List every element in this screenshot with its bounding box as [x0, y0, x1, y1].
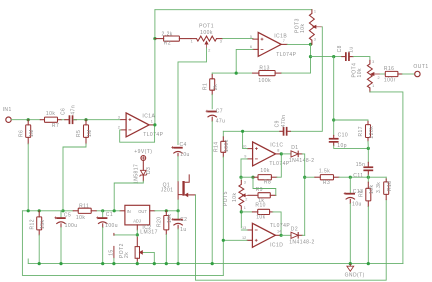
wire: POT2 bottom to ground rail [136, 262, 138, 264]
node: POT2 ground [136, 262, 139, 265]
svg-text:15n: 15n [356, 162, 366, 168]
svg-text:R9: R9 [256, 187, 263, 193]
wire: C2 bottom to ground rail [177, 229, 179, 264]
diode D1 1N4148-2 [281, 153, 290, 155]
svg-text:IC1C: IC1C [270, 143, 283, 149]
wire: C1 bottom to ground rail [102, 227, 104, 263]
svg-text:10k: 10k [232, 193, 238, 202]
node: C5 ground [59, 262, 62, 265]
svg-text:R2: R2 [164, 41, 171, 47]
svg-text:1M: 1M [29, 129, 35, 137]
op-amp IC1C TL074P [253, 142, 276, 166]
wire: R3 to filter nodes [339, 176, 386, 178]
svg-text:R6: R6 [18, 130, 24, 137]
wire: D3 bottom left and down to IN rail [114, 181, 143, 211]
node: R20 ground [165, 262, 168, 265]
resistor R10 10k [241, 211, 252, 213]
node: C1 top [101, 209, 104, 212]
capacitor C8 1u [345, 52, 347, 61]
op-amp IC1D TL074P (inverting orientation) [252, 223, 275, 247]
svg-text:1.5k: 1.5k [319, 169, 330, 175]
svg-text:1: 1 [372, 84, 374, 88]
wire: Q1 left pin down to V+ rail end [177, 200, 179, 211]
svg-text:3: 3 [118, 115, 120, 119]
svg-text:TL074P: TL074P [276, 52, 296, 58]
svg-text:2k: 2k [213, 84, 219, 90]
wire: C13 bottom to ground rail [349, 203, 351, 263]
capacitor C2 1u (polarized) [177, 211, 179, 219]
resistor R7 10k [45, 117, 58, 122]
node: C11 bottom / R4 top [367, 176, 370, 179]
wire: R8 right up to IC1C output node [277, 154, 282, 177]
resistor R9 1k [248, 194, 258, 196]
capacitor C9 470n [283, 127, 285, 136]
op-amp IC1B TL074P [258, 32, 281, 56]
transistor Q1 J201 (JFET) [182, 181, 184, 196]
svg-text:15: 15 [108, 249, 114, 255]
capacitor C5 100u (polarized) [61, 211, 63, 217]
node: C13 top [349, 176, 352, 179]
svg-text:R1: R1 [202, 83, 208, 90]
capacitor C1 100u (polarized) [102, 211, 104, 217]
resistor R3 1.5k [315, 176, 320, 178]
svg-text:C11: C11 [353, 173, 363, 179]
svg-text:R14: R14 [213, 141, 219, 152]
svg-text:LM317: LM317 [140, 230, 158, 236]
capacitor C6 47n [69, 115, 71, 124]
potentiometer POT1 100k [197, 36, 217, 41]
svg-text:10k: 10k [256, 215, 265, 221]
node: C7 ground [211, 262, 214, 265]
svg-text:13: 13 [242, 226, 246, 230]
resistor R18 3.3k [385, 177, 387, 179]
svg-text:3.3k: 3.3k [376, 182, 382, 193]
wire: C9 row from R14 corner to C9 [223, 130, 280, 132]
wire: top node right to R17 [334, 120, 368, 121]
potentiometer POT4 10k [369, 60, 371, 64]
wire: D2 cathode to rectifier bus [302, 234, 305, 236]
wire: POT5 bottom down to IC1D minus corner [240, 210, 242, 228]
svg-text:D1: D1 [291, 145, 298, 151]
wire: C6 to IC1A plus input [73, 119, 120, 121]
svg-text:C10: C10 [338, 133, 349, 139]
svg-text:R17: R17 [358, 126, 364, 137]
svg-text:TL074P: TL074P [270, 223, 290, 229]
potentiometer POT3 10k [311, 10, 313, 14]
diode D3 1N5817 (zener to IN node) [142, 161, 144, 171]
wire: top rail from R2/IC1A node to POT3 top [155, 9, 312, 11]
svg-text:POT1: POT1 [199, 23, 214, 29]
terminal OUT1 [415, 71, 420, 76]
wire: IC1D plus to R14 vertical [223, 239, 247, 241]
supply +9V(T) [141, 156, 146, 161]
wire: R10 right down to IC1D output node [273, 212, 281, 235]
wire: summing rail to R8 [241, 176, 253, 178]
wire: IC1A feedback loop minus to output [120, 125, 155, 142]
svg-text:IC1A: IC1A [142, 113, 155, 119]
svg-text:IN1: IN1 [3, 107, 12, 113]
svg-text:R13: R13 [259, 66, 270, 72]
node: C8 row tap on output vertical [309, 55, 312, 58]
wire: POT4 wiper to R16 [380, 73, 385, 75]
wire: C5 bottom to ground rail [60, 227, 62, 263]
capacitor C7 47u (polarized) [208, 111, 217, 113]
resistor R16 100r [385, 71, 398, 76]
node: C2 ground [177, 262, 180, 265]
wire: C7 bottom down to ground rail [211, 121, 213, 263]
terminal IN1 [6, 117, 11, 122]
svg-text:100k: 100k [200, 30, 213, 36]
svg-text:R12: R12 [29, 219, 35, 230]
svg-text:D2: D2 [291, 227, 298, 233]
resistor R17 220k [367, 121, 369, 124]
svg-text:R5: R5 [76, 130, 82, 137]
svg-text:C4: C4 [180, 142, 187, 148]
svg-text:10k: 10k [76, 215, 85, 221]
svg-text:IC1D: IC1D [270, 242, 283, 248]
svg-text:R20: R20 [156, 216, 162, 227]
resistor R14 100k [222, 131, 224, 137]
node: ADJ cap ground [112, 262, 115, 265]
trimmer POT2 2k [136, 237, 138, 246]
wire: ground rail [28, 259, 403, 264]
wire: Q1 gate line down and right along bottom to R18 [196, 195, 387, 280]
svg-text:10k: 10k [46, 111, 55, 117]
svg-text:2: 2 [118, 126, 120, 130]
svg-text:C2: C2 [180, 217, 187, 223]
svg-text:IN: IN [127, 209, 131, 214]
wire: POT2 wiper right and down to ground rail [143, 252, 154, 263]
svg-text:220k: 220k [369, 126, 375, 139]
svg-text:1: 1 [191, 39, 193, 43]
node: ADJ junction [136, 233, 139, 236]
svg-text:GND(T): GND(T) [345, 273, 365, 279]
svg-text:C1: C1 [106, 212, 113, 218]
wire: ADJ left to bypass cap [114, 234, 137, 236]
node: R4 ground [367, 262, 370, 265]
diode D2 1N4148-2 [281, 234, 291, 236]
resistor R5 1M [85, 120, 87, 125]
wire: POT1 wiper down, left, down to C4 top [178, 48, 207, 145]
node: R2 left / IC1A output vertical junction [153, 37, 156, 40]
svg-text:8: 8 [277, 148, 279, 152]
node: IC1B minus feedback junction [235, 72, 238, 75]
svg-text:10k: 10k [357, 68, 363, 77]
svg-text:POT5: POT5 [223, 191, 229, 206]
wire: POT3 wiper down to C9 right node [290, 27, 322, 132]
node: IC1C minus / R8 / POT5 junction [239, 176, 242, 179]
svg-text:1: 1 [314, 10, 316, 14]
svg-text:3: 3 [220, 39, 222, 43]
node: C5 top / R5 drop [61, 209, 64, 212]
potentiometer POT5 10k [240, 177, 242, 180]
svg-text:1: 1 [151, 119, 153, 123]
wire: V+ rail from LM317 OUT to C4/C2/Q1 node [155, 210, 178, 212]
node: IC1C plus tap on C9 row [241, 130, 244, 133]
svg-text:1M: 1M [87, 129, 93, 137]
wire: R6 bottom down to bias rail [27, 144, 29, 211]
resistor R13 100k [253, 72, 259, 74]
svg-text:R11: R11 [79, 203, 89, 209]
wire: R2-node down to IC1A output [154, 39, 156, 125]
svg-text:10u: 10u [180, 152, 190, 158]
svg-text:2: 2 [208, 49, 210, 53]
node: C13 ground [349, 262, 352, 265]
svg-text:100k: 100k [224, 139, 230, 152]
capacitor C15 15 (ADJ bypass, tiny) [113, 233, 115, 236]
wire: output node down to C8 row and R13 corner [310, 44, 312, 73]
node: R9 upper tap junction [251, 176, 254, 179]
svg-text:1N4148-2: 1N4148-2 [289, 158, 315, 164]
node: R6 drop on bias rail [27, 209, 30, 212]
svg-text:100k: 100k [258, 78, 271, 84]
svg-text:2: 2 [378, 76, 380, 80]
node: POT2 wiper ground [153, 262, 156, 265]
resistor R11 10k [73, 210, 78, 212]
node: C10/R17 branch tap on C8 row [332, 55, 335, 58]
capacitor C13 10u (polarized) [349, 177, 351, 193]
svg-text:R8: R8 [264, 180, 271, 186]
svg-text:3: 3 [372, 60, 374, 64]
wire: IC1B minus input to feedback node [236, 49, 253, 73]
svg-text:100u: 100u [65, 223, 78, 229]
node: D3 drop on IN rail [113, 209, 116, 212]
svg-text:2.2k: 2.2k [162, 31, 173, 37]
svg-text:C6: C6 [60, 108, 66, 115]
node: R12 top [38, 209, 41, 212]
svg-text:D3: D3 [146, 167, 152, 174]
node: IC1D output [280, 234, 283, 237]
node: IC1A output [153, 123, 156, 126]
wire: R9 right up and left to summing rail tap [253, 177, 276, 195]
capacitor C11 15n [367, 148, 369, 162]
svg-text:470n: 470n [281, 114, 287, 127]
node: rectifier bus to R3 [303, 176, 306, 179]
svg-text:10k: 10k [369, 185, 375, 194]
svg-text:+9V(T): +9V(T) [134, 149, 152, 155]
wire: R12 bottom to ground rail [38, 235, 40, 264]
wire: C8 row from output vertical to capacitor C8 [311, 56, 342, 58]
wire: POT1 pin3 to IC1B plus input [223, 38, 253, 40]
svg-text:1u: 1u [180, 227, 186, 233]
svg-text:1N4148-2: 1N4148-2 [289, 240, 315, 246]
svg-text:C5: C5 [64, 213, 71, 219]
svg-text:C8: C8 [337, 45, 343, 52]
svg-text:R3: R3 [323, 180, 330, 186]
svg-text:C9: C9 [275, 120, 281, 127]
resistor R8 10k [253, 176, 259, 178]
wire: R16 to OUT1 terminal [402, 73, 414, 75]
node: IC1D plus on bias drop [222, 239, 225, 242]
resistor R4 10k [367, 177, 369, 182]
svg-text:OUT1: OUT1 [413, 64, 428, 70]
capacitor C10 10p [329, 138, 339, 140]
wire: IC1C plus input up to C9 row [243, 131, 248, 148]
wire: R13 right end up to output node [282, 72, 311, 74]
svg-text:2: 2 [245, 198, 247, 202]
svg-text:9: 9 [244, 155, 246, 159]
wire: R4 bottom to ground rail [367, 207, 369, 264]
wire: bypass cap bottom to ground rail [113, 258, 115, 263]
svg-text:C7: C7 [216, 108, 223, 114]
svg-text:OUT: OUT [138, 209, 147, 214]
svg-text:1N5817: 1N5817 [133, 164, 139, 184]
wire: IC1B output to output node [287, 43, 310, 45]
svg-text:10k: 10k [260, 168, 269, 174]
capacitor C4 10u (polarized) [173, 147, 182, 149]
svg-text:14: 14 [277, 230, 281, 234]
svg-text:R16: R16 [384, 66, 395, 72]
wire: C8-row branch down to C10/R17 top node [333, 57, 335, 136]
wire: IN1 to R7 [11, 119, 40, 121]
svg-text:3: 3 [314, 37, 316, 41]
svg-text:12: 12 [242, 236, 246, 240]
svg-text:100r: 100r [384, 78, 396, 84]
svg-text:TL074P: TL074P [143, 132, 163, 138]
svg-text:J201: J201 [161, 187, 174, 193]
svg-text:10u: 10u [352, 202, 362, 208]
svg-text:IC1B: IC1B [274, 33, 287, 39]
ground GND(T) [347, 266, 354, 271]
wire: R5 bottom jog left and down to bias rail at C5 [63, 144, 86, 211]
resistor R2 2.2k [155, 38, 164, 40]
wire: R1 bottom to C7 [211, 95, 213, 109]
node: R10 left junction [240, 210, 243, 213]
voltage regulator IC2 LM317 [125, 205, 150, 225]
wire: POT4 bottom right and down to ground rail corner [370, 92, 403, 264]
svg-text:R10: R10 [255, 203, 266, 209]
node: R12 ground [38, 262, 41, 265]
wire: vertical from top rail down to R2 left node [154, 10, 156, 39]
wire: LM317 ADJ down to trimmer node [136, 230, 138, 235]
wire: C10 bottom right to R17 bottom junction [334, 146, 369, 149]
svg-text:R18: R18 [387, 180, 393, 191]
node: C1 ground [101, 262, 104, 265]
svg-text:47u: 47u [216, 118, 226, 124]
svg-text:5: 5 [250, 35, 252, 39]
svg-text:10k: 10k [300, 24, 306, 33]
wire: feedback row R1-corner to R13 to output vertical [212, 72, 252, 74]
wire: R7 to C6 [62, 119, 65, 121]
svg-text:ADJ: ADJ [133, 218, 141, 223]
svg-text:6: 6 [250, 45, 252, 49]
svg-text:2k: 2k [124, 252, 130, 258]
node: R5 top junction [84, 118, 87, 121]
op-amp IC1A TL074P [126, 113, 149, 137]
node: R20 top [165, 209, 168, 212]
node: C10/R17 bottom [367, 147, 370, 150]
wire: C4 bottom down to Q1 drain pin [177, 156, 179, 181]
wire: R14 bottom down to IC1D plus and bottom bias loop [222, 157, 224, 276]
svg-text:47n: 47n [71, 105, 77, 115]
svg-text:15k: 15k [40, 220, 46, 229]
resistor R1 2k [211, 73, 213, 75]
svg-text:3: 3 [244, 181, 246, 185]
svg-text:1u: 1u [349, 46, 355, 52]
svg-text:10k: 10k [167, 214, 173, 223]
node: C10/R17 top [332, 118, 335, 121]
svg-text:R7: R7 [52, 123, 59, 129]
node: IC1B output / POT3 bottom [309, 43, 312, 46]
wire: rectifier node to R3 [305, 176, 315, 178]
wire: D1 cathode right and down the rectifier bus [302, 154, 305, 235]
svg-text:100u: 100u [105, 223, 118, 229]
wire: IC1C minus input down to summing rail [241, 159, 247, 177]
svg-text:TL074P: TL074P [269, 161, 289, 167]
svg-text:1: 1 [244, 206, 246, 210]
node: IC1C output [280, 152, 283, 155]
node: input bias junction R6 top [27, 118, 30, 121]
wire: IN rail from outer corner to LM317 IN [22, 210, 73, 212]
wire: IC1D minus to POT5 vertical [241, 229, 247, 231]
svg-text:R4: R4 [358, 190, 364, 197]
wire: R20 bottom to ground rail [165, 234, 167, 263]
resistor R6 1M [27, 120, 29, 125]
node: V+ rail end at C4/C2/Q1 [177, 209, 180, 212]
wire: outer bias loop left side and bottom [22, 211, 223, 276]
resistor R20 10k [165, 211, 167, 216]
wire: C8 to POT4 top [353, 57, 370, 61]
resistor R12 15k [38, 211, 40, 217]
